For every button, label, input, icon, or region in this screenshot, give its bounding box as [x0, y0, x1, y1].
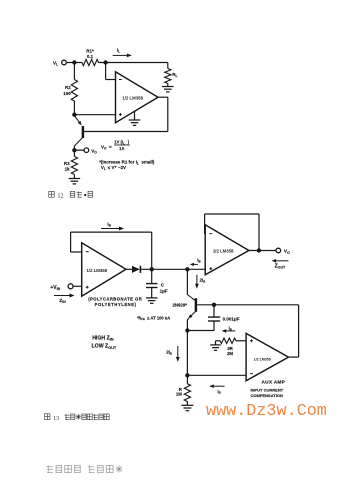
svg-text:R2: R2: [65, 85, 71, 90]
svg-text:1/2 LM358: 1/2 LM358: [122, 95, 143, 100]
svg-text:1M: 1M: [176, 392, 182, 397]
svg-text:≥ AT 100 nA: ≥ AT 100 nA: [147, 315, 170, 320]
svg-text:1A: 1A: [119, 146, 124, 151]
svg-text:POLYETHYLENE): POLYETHYLENE): [95, 302, 137, 307]
svg-text:(POLYCARBONATE OR: (POLYCARBONATE OR: [88, 297, 142, 302]
svg-text:INPUT CURRENT: INPUT CURRENT: [251, 388, 284, 393]
svg-text:≤ V⁺ −2V: ≤ V⁺ −2V: [108, 165, 126, 170]
svg-text:1/2 LM358: 1/2 LM358: [254, 358, 271, 362]
svg-text:1/2 LM358: 1/2 LM358: [87, 268, 108, 273]
svg-text:R3: R3: [64, 161, 70, 166]
svg-text:1μF: 1μF: [160, 289, 168, 294]
svg-text:COMPENSATION: COMPENSATION: [251, 393, 283, 398]
svg-text:www.Dz3w.Com: www.Dz3w.Com: [206, 402, 327, 421]
svg-text:13: 13: [53, 416, 59, 422]
svg-text:0.1: 0.1: [87, 54, 94, 59]
svg-text:1k: 1k: [65, 167, 71, 172]
svg-text:100: 100: [63, 91, 71, 96]
svg-text:2M: 2M: [227, 351, 233, 356]
svg-text:2N929*: 2N929*: [173, 302, 188, 307]
svg-text:R1*: R1*: [86, 49, 94, 54]
svg-text:=: =: [109, 144, 112, 149]
svg-text:12: 12: [58, 193, 64, 199]
svg-text:small): small): [142, 159, 155, 164]
svg-text:0.001μF: 0.001μF: [223, 317, 240, 322]
svg-text:AUX AMP: AUX AMP: [262, 380, 286, 385]
svg-text:1/2 LM358: 1/2 LM358: [213, 248, 234, 253]
